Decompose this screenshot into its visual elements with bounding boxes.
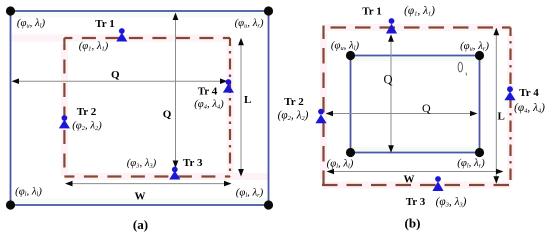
corner node dot top-right (a) — [264, 6, 273, 15]
transmitter Tr 3 marker (a) — [169, 167, 180, 180]
svg-text:(φu, λr): (φu, λr) — [460, 40, 489, 53]
label (phi_l, lambda_r) bottom-right corner (a) — [236, 187, 264, 200]
svg-text:(φ1, λ1): (φ1, λ1) — [79, 40, 109, 53]
svg-text:(φu, λl): (φu, λl) — [17, 17, 46, 30]
svg-text:(φu, λl): (φu, λl) — [331, 40, 360, 53]
svg-text:Tr 2: Tr 2 — [77, 106, 97, 118]
caption (b) — [405, 216, 421, 231]
label (phi_2, lambda_2) (b) — [278, 110, 309, 123]
transmitter Tr 2 marker (a) — [59, 115, 70, 128]
transmitter Tr 2 marker (b) — [315, 109, 326, 124]
transmitter Tr 1 marker (a) — [116, 28, 127, 41]
label (phi_4, lambda_4) (a) — [194, 98, 224, 111]
svg-text:Q: Q — [163, 108, 172, 120]
corner node dot top-left (b) — [346, 51, 355, 60]
transmitter Tr 1 marker (b) — [386, 18, 397, 33]
label Tr 2 (b) — [284, 96, 304, 108]
svg-text:Tr 4: Tr 4 — [519, 87, 539, 99]
label Tr 4 (a) — [198, 86, 218, 98]
svg-text:(φl, λl): (φl, λl) — [15, 186, 42, 199]
blue boundary rectangle (a) — [11, 11, 269, 205]
corner node dot top-left (a) — [6, 6, 15, 15]
svg-text:(φ3, λ3): (φ3, λ3) — [436, 196, 467, 209]
corner node dot bottom-right (b) — [475, 148, 484, 157]
label Q on horizontal arrow (b) — [422, 101, 431, 115]
label (phi_u, lambda_l) top-left corner (a) — [17, 17, 46, 30]
label Tr 1 (a) — [95, 18, 114, 30]
long horizontal Q dimension arrow (a) — [12, 78, 228, 84]
label (phi_u, lambda_r) top-right corner (b) — [460, 40, 489, 53]
svg-text:L: L — [498, 111, 505, 123]
label Tr 2 (a) — [77, 106, 97, 118]
W dimension arrow (a) — [65, 181, 232, 187]
dashed outer rectangle (b) — [322, 26, 511, 186]
label (phi_l, lambda_l) bottom-left corner (b) — [327, 158, 354, 171]
svg-text:(φu, λr): (φu, λr) — [235, 17, 264, 30]
svg-text:Tr 3: Tr 3 — [406, 196, 426, 208]
svg-text:W: W — [135, 190, 146, 202]
label (phi_1, lambda_1) (a) — [79, 40, 109, 53]
label Q on vertical arrow (a) — [163, 108, 172, 120]
label (phi_2, lambda_2) (a) — [72, 120, 102, 133]
svg-text:Q: Q — [383, 73, 392, 87]
svg-text:(φ4, λ4): (φ4, λ4) — [194, 98, 224, 111]
svg-text:(φ2, λ2): (φ2, λ2) — [72, 120, 102, 133]
svg-text:(a): (a) — [133, 217, 148, 232]
label (phi_l, lambda_l) bottom-left corner (a) — [15, 186, 42, 199]
svg-text:Tr 2: Tr 2 — [284, 96, 304, 108]
corner node dot bottom-left (a) — [6, 200, 15, 209]
corner node dot top-right (b) — [475, 51, 484, 60]
transmitter Tr 3 marker (b) — [432, 176, 443, 191]
label Q on horizontal arrow (a) — [111, 69, 120, 81]
L dimension arrow (b) — [493, 28, 499, 184]
horizontal Q dimension arrow (b) — [326, 111, 478, 117]
vertical Q dimension arrow (a) — [173, 13, 179, 169]
label Tr 3 (b) — [406, 196, 426, 208]
corner node dot bottom-right (a) — [264, 200, 273, 209]
svg-text:Tr 1: Tr 1 — [362, 6, 381, 18]
blue inner rectangle (b) — [351, 56, 480, 153]
svg-text:Tr 4: Tr 4 — [198, 86, 218, 98]
svg-text:Tr 1: Tr 1 — [95, 18, 114, 30]
label Q on vertical arrow (b) — [383, 73, 392, 87]
svg-text:(φl, λr): (φl, λr) — [236, 187, 264, 200]
label (phi_l, lambda_r) bottom-right corner (b) — [457, 157, 485, 170]
svg-text:(φ1, λ1): (φ1, λ1) — [404, 5, 435, 18]
svg-text:(b): (b) — [405, 216, 421, 231]
dashed inner rectangle (a) — [64, 38, 230, 177]
corner node dot bottom-left (b) — [346, 148, 355, 157]
svg-text:Q: Q — [111, 69, 120, 81]
svg-text:(φl, λl): (φl, λl) — [327, 158, 354, 171]
label Tr 3 (a) — [183, 157, 203, 169]
W dimension arrow (b) — [327, 169, 504, 175]
caption (a) — [133, 217, 148, 232]
svg-text:W: W — [404, 173, 415, 185]
label (phi_1, lambda_1) (b) — [404, 5, 435, 18]
label (phi_u, lambda_l) top-left corner (b) — [331, 40, 360, 53]
label Tr 1 (b) — [362, 6, 381, 18]
label W (a) — [135, 190, 146, 202]
label L (b) — [498, 111, 505, 123]
transmitter Tr 4 marker (a) — [223, 79, 234, 93]
svg-text:(φ2, λ2): (φ2, λ2) — [278, 110, 309, 123]
label (phi_4, lambda_4) (b) — [514, 102, 545, 115]
faint scan artifact bands — [11, 15, 511, 201]
svg-text:(φ4, λ4): (φ4, λ4) — [514, 102, 545, 115]
label (phi_u, lambda_r) top-right corner (a) — [235, 17, 264, 30]
small D ellipse glyph (b) — [458, 62, 467, 75]
L dimension arrow (a) — [238, 38, 244, 177]
label (phi_3, lambda_3) (a) — [127, 157, 157, 170]
svg-text:(φl, λr): (φl, λr) — [457, 157, 485, 170]
transmitter Tr 4 marker (b) — [504, 86, 515, 100]
label W (b) — [404, 173, 415, 185]
svg-text:Q: Q — [422, 101, 431, 115]
label (phi_3, lambda_3) (b) — [436, 196, 467, 209]
svg-text:L: L — [244, 94, 251, 106]
label Tr 4 (b) — [519, 87, 539, 99]
label L (a) — [244, 94, 251, 106]
svg-text:Tr 3: Tr 3 — [183, 157, 203, 169]
vertical Q dimension arrow (b) — [388, 34, 394, 153]
svg-text:(φ3, λ3): (φ3, λ3) — [127, 157, 157, 170]
